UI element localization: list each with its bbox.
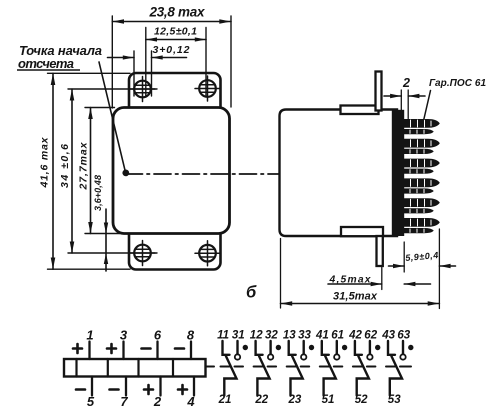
pin pair row 4 [404,178,440,193]
dimension 3.6 (cover edge to hole center) [104,209,108,271]
mounting hole top-right [195,76,220,101]
svg-text:Гар.ПОС 61: Гар.ПОС 61 [429,78,486,89]
svg-text:61: 61 [331,330,344,342]
mounting hole bottom-right [195,241,220,266]
svg-text:4: 4 [186,394,195,409]
side view pin header (dark base strip) [392,110,404,236]
svg-text:6: 6 [154,328,162,343]
svg-text:23: 23 [288,394,302,406]
polarity marks top [73,344,184,353]
top mounting bracket tab [376,72,382,111]
dimension 34 (hole row spacing) [68,89,157,253]
svg-text:б: б [246,284,257,302]
polarity marks bottom [76,385,187,394]
svg-text:32: 32 [265,330,278,342]
pin pair row 5 [404,198,440,213]
datum point dot [122,170,129,177]
svg-text:41,6 max: 41,6 max [39,136,51,188]
pin pair row 6 [404,218,440,233]
contact group 2: pins 12 32 22 [256,341,281,396]
dimension 41.6 max (overall height) [48,73,131,269]
svg-text:3: 3 [120,328,128,343]
contact group 6: pins 43 63 53 [388,341,413,396]
svg-text:27,7max: 27,7max [78,141,90,190]
pin pair row 3 [404,159,440,174]
armature linkage dashed line [221,366,412,368]
dimension 23.8 max (top width) [112,16,231,108]
dimension 27.7 max (cover height) [85,108,120,234]
solder note leader (Гар. ПОС 61) [424,91,431,120]
datum leader line [99,62,125,172]
bottom mounting bracket tab [377,236,383,266]
mounting hole bottom-left [130,241,155,266]
svg-text:13: 13 [283,330,296,342]
svg-text:53: 53 [388,394,401,406]
contact group 3: pins 13 33 23 [289,341,314,396]
winding lead 8 [190,342,192,360]
svg-text:1: 1 [86,328,93,343]
winding lead 2 [159,377,161,396]
svg-text:3+0,12: 3+0,12 [153,44,190,56]
svg-text:33: 33 [298,330,311,342]
svg-text:62: 62 [364,330,377,342]
svg-text:8: 8 [187,328,195,343]
winding lead 5 [91,377,93,396]
svg-text:23,8 max: 23,8 max [149,5,205,20]
svg-text:42: 42 [348,330,362,342]
dimension 5.9 (pin length) [389,229,456,309]
contact group 5: pins 42 62 52 [355,341,381,396]
svg-text:43: 43 [381,330,395,342]
front view cover body [113,108,230,234]
winding block rectangle [64,359,206,377]
text: Точка начала отсчета [17,43,102,71]
svg-text:34 ±0,6: 34 ±0,6 [59,144,71,188]
winding lead 6 [156,342,158,360]
pin pair row 1 [404,119,440,134]
horizontal center axis dash-dot line [126,173,404,175]
svg-text:52: 52 [355,394,368,406]
svg-text:31: 31 [232,330,245,342]
svg-text:51: 51 [322,394,335,406]
svg-text:2: 2 [402,76,410,90]
contact group 4: pins 41 61 51 [322,341,348,396]
winding section dividers [77,359,174,377]
winding lead 3 [122,342,124,360]
svg-text:22: 22 [254,394,268,406]
svg-text:7: 7 [120,394,128,409]
side view body [280,110,398,237]
dimension 31.5 max (overall depth) [281,239,440,309]
svg-text:отсчета: отсчета [18,56,74,71]
dimension 4.5 max (mounting depth) [328,268,431,290]
svg-text:31,5max: 31,5max [333,291,378,303]
dimension 3 (hole diameter) [108,51,187,96]
mounting hole top-left [130,77,155,102]
svg-text:11: 11 [217,330,229,342]
svg-text:12: 12 [250,330,263,342]
winding lead 1 [88,342,90,360]
svg-text:41: 41 [315,330,329,342]
winding lead 7 [125,377,127,396]
contact group 1: pins 11 31 21 [223,341,249,396]
winding lead 4 [193,377,195,396]
top mounting bracket slab [341,106,379,115]
dimension 2 (pin offset) [384,90,425,119]
svg-text:5: 5 [87,394,95,409]
bottom mounting bracket slab [341,227,383,236]
svg-text:4,5max: 4,5max [329,275,372,286]
svg-text:21: 21 [218,394,232,406]
armature linkage stub [206,366,215,368]
front view flange plate [129,73,221,270]
svg-text:2: 2 [153,394,162,409]
svg-text:63: 63 [397,330,410,342]
svg-text:3,6+0,48: 3,6+0,48 [93,175,103,211]
pin pair row 2 [404,139,440,154]
dimension 12.5 (hole spacing) [146,28,206,97]
svg-text:12,5±0,1: 12,5±0,1 [154,26,197,38]
